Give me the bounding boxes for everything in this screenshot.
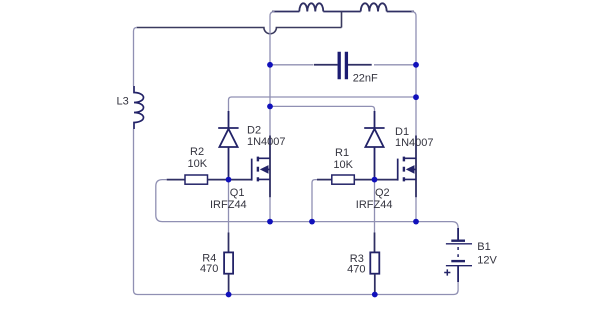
transistor Q2 IRFZ44 [398, 157, 416, 182]
node: Q1 source on ground row [267, 219, 273, 225]
battery B1 [446, 240, 472, 266]
svg-text:IRFZ44: IRFZ44 [210, 199, 247, 211]
node: R3 on bottom rail [372, 292, 378, 298]
wire: left outer rail below L3 down to bottom rail [134, 129, 138, 295]
transistor Q1 body-diode arrow [260, 165, 269, 174]
node: cap right on Q2 drain [413, 62, 419, 68]
resistor R3 body [370, 252, 379, 273]
svg-text:12V: 12V [477, 255, 497, 267]
battery B1 top lead [457, 228, 459, 240]
wire: bottom rail [138, 281, 459, 295]
svg-text:Q1: Q1 [230, 187, 245, 199]
resistor R2 lead right [208, 179, 229, 181]
wire: top-left corner into left outer rail [134, 28, 138, 87]
node: D1 row on Q1 drain [267, 104, 273, 110]
svg-text:Q2: Q2 [375, 187, 390, 199]
wire: top rail with transformer windings [272, 3, 414, 11]
inductor winding left (top) [299, 3, 323, 11]
diode D2 [218, 128, 238, 180]
resistor R1 lead right [354, 179, 374, 181]
wire: left drain/source rail through Q1 (dark part) [269, 136, 271, 198]
wire: right drain rail (upper grey part) with top corner [412, 12, 417, 222]
wire: R1 left leg down to source row [312, 180, 318, 222]
svg-text:L3: L3 [117, 96, 129, 108]
node: R4 on bottom rail [226, 292, 232, 298]
resistor R1 body [332, 175, 355, 184]
transistor Q2 body-diode arrow [406, 165, 415, 174]
diode D1 cathode stub [374, 111, 376, 128]
diode D2 cathode stub [228, 111, 230, 128]
wire: top rail center segment [323, 11, 360, 13]
node: Q2 source on ground row [413, 219, 419, 225]
resistor R2 body [185, 175, 208, 184]
svg-text:R2: R2 [190, 146, 204, 158]
resistor R4 body [224, 252, 233, 273]
capacitor C 22nF leads [314, 64, 372, 66]
wire: right drain/source rail through Q2 (dark part) [415, 136, 417, 198]
wire: R3 column from gate node [374, 180, 376, 233]
wire: capacitor row grey leads [270, 64, 416, 66]
wire: Q1 gate lead [229, 179, 252, 181]
svg-text:R1: R1 [335, 147, 349, 159]
svg-text:D2: D2 [247, 125, 261, 137]
wire: top rail right segment [387, 11, 414, 13]
resistor R4 lead bottom [228, 274, 230, 295]
svg-text:IRFZ44: IRFZ44 [356, 199, 393, 211]
svg-text:22nF: 22nF [353, 72, 378, 84]
node: R1 leg on ground row [309, 219, 315, 225]
node: cap left on Q1 drain [267, 62, 273, 68]
node: Q1 gate [226, 177, 232, 183]
battery B1 bottom lead [457, 266, 459, 282]
wire: R4 column from gate node [228, 180, 230, 233]
svg-text:10K: 10K [333, 159, 353, 171]
node: D2 row on Q2 drain [413, 94, 419, 100]
wire: left drain rail (upper grey part) with top corner [270, 12, 275, 222]
svg-text:B1: B1 [477, 241, 490, 253]
resistor R1 lead left [317, 179, 332, 181]
transistor Q1 IRFZ44 [252, 157, 270, 182]
resistor R3 lead bottom [374, 274, 376, 295]
battery plus sign [444, 269, 450, 275]
wire: source/ground row from R2 loop to battery top [156, 180, 458, 229]
wire: D2 cathode row to right rail [229, 97, 417, 112]
node: Q2 gate [372, 177, 378, 183]
inductor winding right (top) [361, 3, 387, 11]
svg-text:1N4007: 1N4007 [395, 137, 434, 149]
svg-text:470: 470 [347, 263, 365, 275]
diode D1 [364, 128, 384, 180]
svg-text:1N4007: 1N4007 [247, 136, 286, 148]
inductor L3 [134, 86, 144, 129]
svg-text:470: 470 [200, 263, 218, 275]
wire: Q2 gate lead [375, 179, 398, 181]
resistor R2 lead left [167, 179, 185, 181]
svg-text:10K: 10K [188, 158, 208, 170]
wire: D1 cathode row to left rail [270, 106, 375, 112]
wire: center-tap feed with hop over left drain rail [137, 12, 342, 34]
capacitor C 22nF plates [339, 52, 346, 79]
